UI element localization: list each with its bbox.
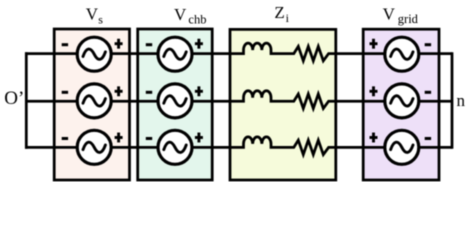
- svg-text:s: s: [98, 12, 103, 26]
- svg-text:chb: chb: [188, 12, 206, 26]
- svg-text:Z: Z: [274, 3, 284, 22]
- svg-text:V: V: [86, 5, 99, 24]
- svg-text:n: n: [457, 91, 466, 110]
- svg-text:O’: O’: [4, 88, 24, 109]
- svg-text:V: V: [174, 5, 187, 24]
- svg-text:V: V: [383, 5, 396, 24]
- svg-text:i: i: [286, 11, 290, 25]
- svg-text:grid: grid: [398, 12, 419, 26]
